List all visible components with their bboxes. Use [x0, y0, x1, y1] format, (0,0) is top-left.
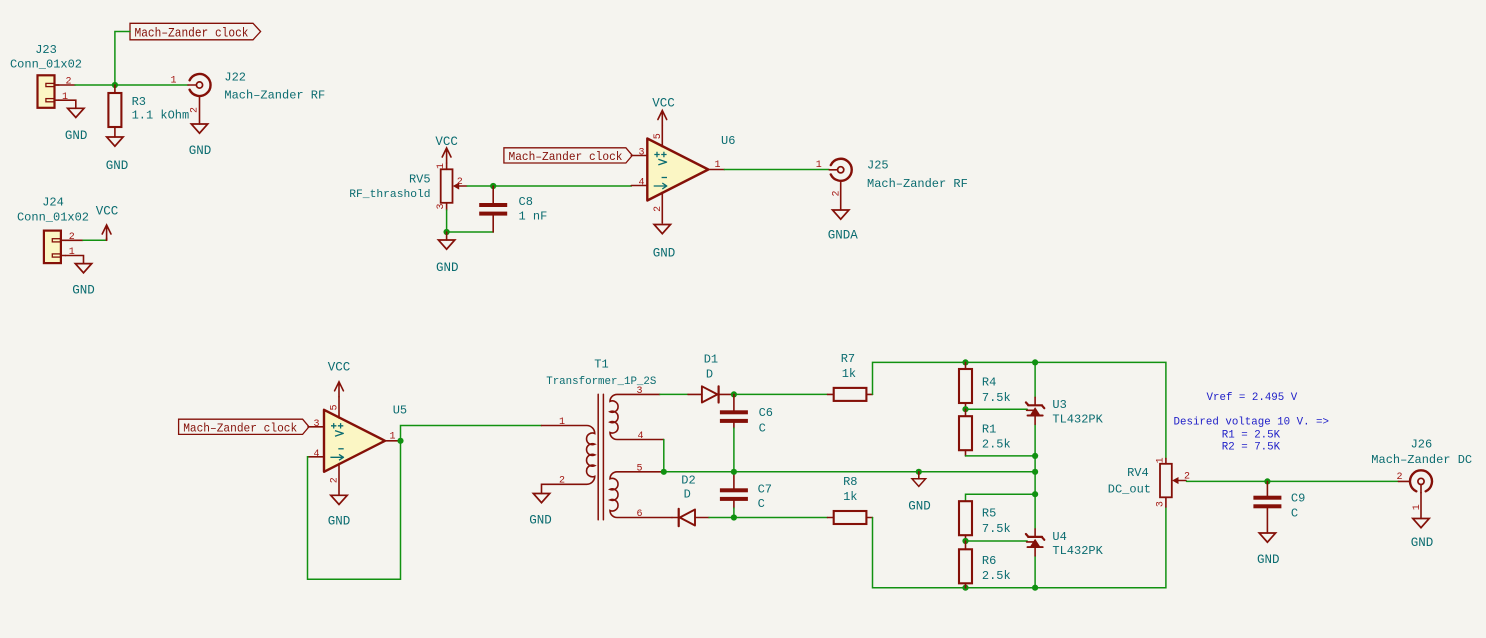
svg-text:R6: R6: [982, 554, 996, 568]
svg-text:C: C: [759, 422, 766, 436]
svg-text:GND: GND: [908, 500, 931, 514]
svg-text:3: 3: [1155, 501, 1166, 507]
svg-text:3: 3: [637, 386, 643, 397]
node C9 junction: [1264, 478, 1270, 484]
svg-text:7.5k: 7.5k: [982, 522, 1011, 536]
svg-text:VCC: VCC: [96, 204, 119, 218]
svg-text:GNDA: GNDA: [828, 228, 859, 242]
coax connector J26: [1371, 438, 1472, 511]
svg-text:1.1 kOhm: 1.1 kOhm: [132, 109, 190, 123]
resistor R1: [959, 409, 1011, 456]
svg-text:C: C: [1291, 506, 1298, 520]
node U4 anode junction: [1032, 585, 1038, 591]
connector J23: [10, 43, 82, 108]
wire J26 pin1 to ground: [1420, 492, 1422, 518]
resistor R8: [834, 475, 873, 524]
wire T1 pin3 to D1: [660, 393, 688, 395]
node R5/R6 junction: [962, 538, 968, 544]
wire RV4 wiper to J26: [1187, 480, 1399, 482]
svg-text:C6: C6: [759, 406, 773, 420]
ground under J23: [65, 108, 88, 143]
shunt regulator U4 TL432PK: [1026, 529, 1104, 558]
svg-text:3: 3: [313, 419, 319, 430]
svg-text:R5: R5: [982, 507, 996, 521]
svg-text:J26: J26: [1411, 438, 1433, 452]
svg-text:Mach–Zander RF: Mach–Zander RF: [867, 177, 968, 191]
ground under J26: [1411, 519, 1434, 551]
svg-text:R1: R1: [982, 423, 996, 437]
svg-text:R1 = 2.5K: R1 = 2.5K: [1222, 429, 1281, 441]
svg-text:Mach–Zander clock: Mach–Zander clock: [135, 26, 249, 41]
diode D1: [688, 353, 734, 403]
wire T1 pin4 drop to pin5 net: [663, 440, 665, 472]
potentiometer RV4: [1108, 457, 1190, 507]
svg-text:GND: GND: [653, 247, 676, 261]
wire J24 pin2 stub: [65, 239, 83, 241]
node T1 pin4/pin5 junction: [661, 469, 667, 475]
capacitor C8: [479, 186, 547, 232]
svg-text:Mach–Zander RF: Mach–Zander RF: [224, 89, 325, 103]
svg-text:GND: GND: [328, 515, 351, 529]
wire R5/R6 junction to U4 ref: [966, 540, 1028, 542]
svg-text:TL432PK: TL432PK: [1052, 412, 1103, 426]
wire U5 output to T1 pin1: [401, 426, 542, 441]
svg-text:2: 2: [69, 232, 75, 243]
wire R1 bottom to U3 line: [966, 455, 1036, 457]
svg-text:GND: GND: [65, 129, 88, 143]
svg-text:TL432PK: TL432PK: [1052, 544, 1103, 558]
capacitor C9: [1253, 481, 1305, 533]
svg-text:1: 1: [436, 163, 447, 169]
global label Mach-Zander clock (U5): [179, 419, 309, 435]
wire U3 vertical: [1034, 362, 1036, 587]
svg-text:C: C: [758, 497, 765, 511]
svg-text:4: 4: [638, 178, 644, 189]
transformer T1: [542, 358, 673, 521]
svg-text:R2 = 7.5K: R2 = 7.5K: [1222, 442, 1281, 454]
svg-text:5: 5: [653, 133, 664, 139]
op-amp U6: [631, 126, 735, 224]
wire J24 pin2 to VCC: [83, 239, 107, 241]
svg-text:D1: D1: [704, 353, 718, 367]
capacitor C7: [720, 473, 772, 518]
ground under C9: [1257, 533, 1280, 567]
svg-text:5: 5: [330, 404, 341, 410]
svg-text:2: 2: [65, 77, 71, 88]
wire J25 pin2 to ground: [840, 181, 842, 210]
op-amp U5: [308, 397, 407, 495]
svg-text:2.5k: 2.5k: [982, 438, 1011, 452]
node RV5/C8 junction: [490, 183, 496, 189]
svg-text:1: 1: [715, 160, 721, 171]
wire pin5 net (center rail): [664, 471, 1035, 473]
svg-text:3: 3: [436, 203, 447, 209]
svg-text:U4: U4: [1052, 530, 1066, 544]
diode D2: [672, 474, 709, 527]
svg-text:1: 1: [1155, 457, 1166, 463]
svg-text:1 nF: 1 nF: [519, 210, 548, 224]
svg-text:R3: R3: [132, 95, 146, 109]
node C6/C7 junction on pin5 net: [731, 469, 737, 475]
svg-text:2: 2: [457, 177, 463, 188]
wire RV5 pin3 down: [446, 203, 448, 210]
node U5 output junction: [397, 438, 403, 444]
svg-text:6: 6: [637, 509, 643, 520]
svg-text:U5: U5: [393, 404, 407, 418]
node R6 bottom junction: [962, 585, 968, 591]
svg-text:GND: GND: [72, 284, 95, 298]
svg-text:7.5k: 7.5k: [982, 391, 1011, 405]
wire J24 pin1 to ground: [65, 256, 83, 264]
power VCC (U5): [328, 361, 351, 397]
svg-text:Conn_01x02: Conn_01x02: [17, 211, 89, 225]
power VCC (RV5): [435, 135, 458, 169]
node ground junction: [444, 229, 450, 235]
svg-text:VCC: VCC: [435, 135, 458, 149]
svg-text:1: 1: [390, 431, 396, 442]
svg-text:2: 2: [653, 206, 664, 212]
svg-text:1: 1: [62, 92, 68, 103]
coax connector J22: [170, 71, 325, 114]
ground under RV5: [436, 232, 459, 275]
node on U3 line (R1): [1032, 453, 1038, 459]
svg-text:1: 1: [170, 76, 176, 87]
svg-text:GND: GND: [529, 513, 552, 527]
resistor R3: [108, 85, 189, 137]
svg-text:J22: J22: [224, 71, 246, 85]
svg-text:1: 1: [559, 417, 565, 428]
global label Mach-Zander clock (U6): [504, 148, 632, 164]
svg-text:C7: C7: [758, 483, 772, 497]
svg-text:T1: T1: [594, 358, 608, 372]
node on U3 line (R5): [1032, 491, 1038, 497]
wire C6 to pin5 net: [733, 428, 735, 472]
wire R7 to top rail: [873, 362, 1166, 458]
resistor R4: [959, 362, 1011, 409]
node U3 cathode junction: [1032, 359, 1038, 365]
svg-text:J25: J25: [867, 159, 889, 173]
svg-text:VCC: VCC: [328, 361, 351, 375]
svg-text:Mach–Zander clock: Mach–Zander clock: [509, 150, 623, 164]
svg-text:C9: C9: [1291, 491, 1305, 505]
ground under U5: [328, 495, 351, 528]
svg-text:4: 4: [313, 449, 319, 460]
svg-text:R8: R8: [843, 475, 857, 489]
svg-text:2: 2: [330, 477, 341, 483]
wire J23 pin1 to ground: [59, 100, 76, 108]
svg-text:J24: J24: [42, 195, 64, 209]
svg-text:J23: J23: [35, 43, 57, 57]
svg-text:1k: 1k: [842, 367, 856, 381]
svg-text:RV5: RV5: [409, 172, 431, 186]
wire D2 to R8: [709, 517, 828, 519]
wire R5 top to U3 line: [966, 494, 1036, 501]
svg-text:D: D: [706, 368, 713, 382]
svg-text:GND: GND: [106, 159, 129, 173]
wire D1 to R7: [734, 393, 828, 395]
wire node A to J22: [115, 84, 188, 86]
svg-text:U3: U3: [1052, 398, 1066, 412]
svg-text:U6: U6: [721, 134, 735, 148]
node R4/R1 junction: [962, 406, 968, 412]
svg-text:RF_thrashold: RF_thrashold: [349, 189, 430, 201]
svg-text:C8: C8: [519, 195, 533, 209]
svg-text:Desired voltage 10 V. =>: Desired voltage 10 V. =>: [1174, 417, 1330, 429]
wire T1 pin2 to ground: [542, 484, 549, 493]
ground under T1: [529, 494, 552, 528]
resistor R6: [959, 541, 1011, 588]
wire RV5 wiper to U6 pin4: [467, 185, 631, 187]
svg-text:D: D: [684, 488, 691, 502]
svg-text:D2: D2: [681, 474, 695, 488]
node GND tap junction: [916, 469, 922, 475]
svg-text:RV4: RV4: [1127, 466, 1149, 480]
node D1/C6 junction: [731, 391, 737, 397]
global label Mach-Zander clock (top): [130, 23, 261, 40]
svg-text:Conn_01x02: Conn_01x02: [10, 58, 82, 72]
svg-text:R4: R4: [982, 376, 996, 390]
power VCC (U6): [652, 96, 675, 125]
svg-text:VCC: VCC: [652, 96, 675, 110]
wire label to node A: [115, 32, 130, 85]
svg-text:Mach–Zander clock: Mach–Zander clock: [183, 421, 297, 435]
resistor R7: [834, 352, 873, 401]
svg-text:5: 5: [637, 464, 643, 475]
wire R8 to bottom rail: [873, 507, 1166, 588]
ground tap on pin5 net: [908, 472, 931, 514]
connector J24: [17, 195, 89, 263]
svg-text:R7: R7: [841, 352, 855, 366]
power VCC (J24): [96, 204, 119, 240]
coax connector J25: [816, 159, 968, 197]
node R4 top junction: [962, 359, 968, 365]
wire J23 pin2 to node A: [55, 84, 76, 86]
node center rail / U3 line: [1032, 469, 1038, 475]
node D2/C7 junction: [731, 514, 737, 520]
svg-text:GND: GND: [1257, 553, 1280, 567]
wire U5 feedback loop: [308, 441, 401, 580]
svg-text:GND: GND: [189, 144, 212, 158]
svg-text:2: 2: [559, 476, 565, 487]
capacitor C6: [720, 394, 773, 435]
ground under J24: [72, 264, 95, 298]
svg-text:3: 3: [638, 148, 644, 159]
svg-text:2: 2: [1396, 472, 1402, 483]
ground under J22: [189, 124, 212, 158]
wire R4/R1 junction to U3 ref: [966, 408, 1028, 410]
svg-text:2.5k: 2.5k: [982, 569, 1011, 583]
svg-text:GND: GND: [436, 261, 459, 275]
svg-text:1: 1: [69, 247, 75, 258]
svg-text:GND: GND: [1411, 536, 1434, 550]
node A junction: [112, 82, 118, 88]
svg-text:Mach–Zander DC: Mach–Zander DC: [1371, 453, 1472, 467]
svg-text:4: 4: [638, 431, 644, 442]
ground GNDA under J25: [828, 210, 859, 242]
wire J22 pin2 to ground: [199, 96, 201, 124]
svg-text:1: 1: [816, 160, 822, 171]
potentiometer RV5: [349, 163, 467, 210]
ground under U6: [653, 225, 676, 261]
shunt regulator U3 TL432PK: [1026, 397, 1104, 426]
wire U6 output to J25: [724, 169, 829, 171]
svg-text:DC_out: DC_out: [1108, 482, 1151, 496]
ground under R3: [106, 137, 129, 173]
svg-text:1k: 1k: [843, 490, 857, 504]
resistor R5: [959, 501, 1011, 541]
svg-text:Vref = 2.495 V: Vref = 2.495 V: [1207, 392, 1298, 404]
